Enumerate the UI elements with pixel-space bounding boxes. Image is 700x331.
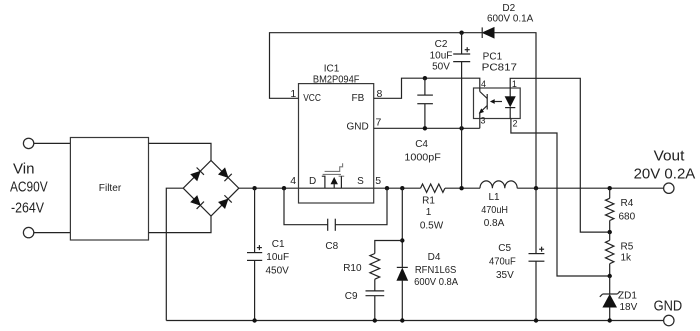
opto PC1 body — [474, 88, 521, 119]
bridge rectifier frame — [183, 161, 239, 217]
svg-text:D4: D4 — [428, 252, 441, 263]
label 20V 0.2A — [634, 167, 696, 183]
svg-text:1: 1 — [512, 79, 517, 89]
transistor (internal MOSFET) drain lead — [322, 176, 325, 188]
pin 1 label (PC1) — [512, 79, 517, 89]
svg-text:10uF: 10uF — [430, 50, 453, 61]
label GND — [654, 299, 683, 315]
svg-text:BM2P094F: BM2P094F — [313, 75, 360, 86]
wire — [401, 188, 403, 267]
wire — [34, 142, 71, 144]
svg-text:VCC: VCC — [303, 93, 321, 104]
wire (main rail: bridge to R1) — [239, 187, 421, 189]
svg-text:AC90V: AC90V — [10, 180, 48, 196]
wire — [609, 221, 611, 233]
pin S label — [357, 176, 364, 187]
capacitor C4 — [417, 78, 433, 128]
svg-text:50V: 50V — [432, 62, 450, 73]
label Filter — [99, 183, 122, 194]
svg-text:600V 0.8A: 600V 0.8A — [414, 277, 458, 288]
svg-text:35V: 35V — [496, 270, 514, 281]
opto LED — [505, 88, 515, 119]
svg-text:Filter: Filter — [99, 183, 122, 194]
diode D2 — [482, 27, 494, 38]
node (FB / C4) — [423, 76, 427, 80]
label 0.5W — [420, 220, 444, 231]
bridge diode (upper-right) — [218, 167, 232, 181]
label 680 — [619, 212, 636, 223]
resistor R10 — [370, 254, 380, 280]
pin VCC label — [303, 93, 321, 104]
label Vout — [654, 149, 685, 165]
pin 1 label — [290, 88, 296, 100]
node (rail / C8 left) — [282, 186, 286, 190]
svg-text:4: 4 — [290, 175, 296, 187]
opto phototransistor — [479, 88, 487, 119]
node (rail / R4) — [608, 186, 612, 190]
wire (D2 to rail node) — [494, 33, 536, 189]
wire — [375, 241, 403, 254]
transistor body-diode arrow — [331, 178, 337, 189]
diode D4 — [397, 267, 408, 320]
svg-text:S: S — [357, 176, 364, 187]
label D2 — [502, 3, 515, 14]
svg-text:Vout: Vout — [654, 149, 685, 165]
label ZD1 — [618, 291, 637, 302]
node — [534, 318, 538, 322]
svg-text:1: 1 — [426, 207, 432, 218]
node (rail / C5 D2 branch) — [534, 186, 538, 190]
pin GND label — [346, 122, 368, 133]
label 450V — [266, 265, 290, 276]
filter block — [70, 138, 148, 241]
svg-text:PC1: PC1 — [483, 52, 503, 63]
node (GND / C2) — [459, 126, 463, 130]
capacitor C8 — [284, 188, 387, 231]
svg-text:PC817: PC817 — [482, 63, 518, 74]
svg-text:RFN1L6S: RFN1L6S — [415, 265, 457, 276]
input terminal (AC line, bottom) — [23, 227, 33, 237]
capacitor C2 — [453, 33, 470, 189]
wire — [609, 276, 611, 294]
wire (GND pin 7 to PC1 pin 3) — [374, 119, 480, 129]
svg-text:D2: D2 — [502, 3, 515, 14]
svg-text:600V 0.1A: 600V 0.1A — [487, 14, 534, 25]
inductor L1 — [480, 181, 517, 188]
wire (PC1 pin 2 to R5-ZD1 node) — [511, 119, 610, 277]
wire — [609, 188, 611, 198]
svg-text:C9: C9 — [345, 291, 358, 302]
node (rail / C1 tap) — [252, 186, 256, 190]
node (rail / C8 right) — [385, 186, 389, 190]
node (top rail / C2) — [459, 31, 463, 35]
label Vin — [13, 162, 35, 178]
label C5 — [498, 243, 511, 254]
svg-text:R1: R1 — [422, 196, 435, 207]
wire — [149, 216, 212, 233]
label 10uF — [266, 252, 289, 263]
label 18V — [620, 302, 638, 313]
svg-text:R5: R5 — [621, 242, 634, 253]
svg-text:3: 3 — [481, 116, 486, 126]
pin 4 label — [290, 175, 296, 187]
svg-text:R4: R4 — [621, 198, 634, 209]
pin 5 label — [375, 175, 381, 187]
label R1 — [422, 196, 435, 207]
op IC1 body — [299, 84, 374, 203]
label C2 — [435, 39, 448, 50]
wire (VCC pin 1 to top rail) — [270, 33, 483, 99]
svg-text:GND: GND — [346, 122, 368, 133]
output terminal Vout — [664, 183, 674, 193]
node (R5/ZD1) — [608, 274, 612, 278]
capacitor C9 — [366, 279, 385, 320]
svg-text:C8: C8 — [325, 241, 338, 252]
pin 4 label (PC1) — [481, 79, 486, 89]
pin 7 label — [376, 117, 382, 129]
label 35V — [496, 270, 514, 281]
svg-text:470uF: 470uF — [489, 257, 516, 268]
svg-text:D: D — [309, 176, 316, 187]
label C1 — [272, 239, 285, 250]
label 470uH — [481, 205, 508, 216]
svg-text:7: 7 — [376, 117, 382, 129]
svg-text:C4: C4 — [415, 139, 428, 150]
svg-text:450V: 450V — [266, 265, 290, 276]
label L1 — [488, 192, 500, 203]
wire (PC1 pin 1 to R4-R5 node) — [510, 78, 610, 232]
wire — [609, 232, 611, 240]
svg-text:C2: C2 — [435, 39, 448, 50]
transistor gate lead — [325, 163, 343, 171]
bridge diode (lower-left) — [190, 195, 204, 209]
node — [373, 318, 377, 322]
label BM2P094F — [313, 75, 360, 86]
svg-text:470uH: 470uH — [481, 205, 508, 216]
svg-text:2: 2 — [513, 119, 518, 129]
transistor source lead — [339, 176, 345, 188]
resistor R1 — [421, 184, 445, 192]
svg-text:10uF: 10uF — [266, 252, 289, 263]
svg-text:680: 680 — [619, 212, 636, 223]
resistor R4 — [606, 198, 614, 220]
opto light arrow — [491, 100, 502, 104]
bridge diode (lower-right) — [218, 195, 232, 209]
node — [608, 318, 612, 322]
svg-text:C1: C1 — [272, 239, 285, 250]
node (rail / C2 branch) — [459, 186, 463, 190]
bridge diode (upper-left) — [190, 167, 204, 181]
svg-text:18V: 18V — [620, 302, 638, 313]
label 470uF — [489, 257, 516, 268]
wire — [34, 232, 71, 234]
capacitor C5 — [529, 188, 545, 320]
node (GND / C4) — [423, 126, 427, 130]
label 600V 0.1A — [487, 14, 534, 25]
label AC90V — [10, 180, 48, 196]
label C8 — [325, 241, 338, 252]
node — [252, 318, 256, 322]
transistor channel bar — [323, 173, 341, 175]
svg-text:0.8A: 0.8A — [484, 218, 505, 229]
label 1k — [621, 253, 633, 264]
label RFN1L6S — [415, 265, 457, 276]
label C9 — [345, 291, 358, 302]
label 600V 0.8A — [414, 277, 458, 288]
capacitor C1 — [247, 188, 262, 320]
resistor R5 — [606, 240, 614, 263]
wire — [609, 264, 611, 276]
pin 2 label (PC1) — [513, 119, 518, 129]
svg-text:L1: L1 — [488, 192, 500, 203]
svg-text:1k: 1k — [621, 253, 633, 264]
svg-text:R10: R10 — [343, 263, 362, 274]
svg-text:ZD1: ZD1 — [618, 291, 637, 302]
label D4 — [428, 252, 441, 263]
svg-text:Vin: Vin — [13, 162, 35, 178]
pin FB label — [352, 93, 365, 104]
label 0.8A — [484, 218, 505, 229]
wire (ground bus) — [166, 320, 663, 322]
svg-text:GND: GND — [654, 299, 683, 315]
label 1000pF — [404, 152, 440, 163]
wire (FB pin 8 to PC1 pin 4) — [374, 78, 480, 98]
label R10 — [343, 263, 362, 274]
pin D label — [309, 176, 316, 187]
wire — [149, 143, 212, 160]
svg-text:4: 4 — [481, 79, 486, 89]
wire — [166, 188, 183, 320]
svg-text:0.5W: 0.5W — [420, 220, 444, 231]
label R5 — [621, 242, 634, 253]
svg-text:20V 0.2A: 20V 0.2A — [634, 167, 696, 183]
label 50V — [432, 62, 450, 73]
svg-text:-264V: -264V — [11, 201, 44, 217]
label PC1 — [483, 52, 503, 63]
wire (rail L1 to Vout) — [517, 187, 663, 189]
label PC817 — [482, 63, 518, 74]
label -264V — [11, 201, 44, 217]
svg-text:1000pF: 1000pF — [404, 152, 440, 163]
svg-text:C5: C5 — [498, 243, 511, 254]
label 10uF — [430, 50, 453, 61]
node (R4/R5) — [608, 230, 612, 234]
label R4 — [621, 198, 634, 209]
pin 3 label (PC1) — [481, 116, 486, 126]
svg-text:FB: FB — [352, 93, 365, 104]
node — [400, 318, 404, 322]
label C4 — [415, 139, 428, 150]
label IC1 — [324, 64, 340, 75]
label 1 — [426, 207, 432, 218]
zener ZD1 — [600, 291, 620, 320]
input terminal (AC line, top) — [23, 138, 33, 148]
output terminal GND — [664, 315, 674, 325]
node (D4 / snubber) — [400, 238, 404, 242]
wire (rail R1 to L1) — [445, 187, 480, 189]
svg-text:5: 5 — [375, 175, 381, 187]
svg-text:IC1: IC1 — [324, 64, 340, 75]
pin 8 label — [377, 88, 383, 100]
node (rail / D4) — [400, 186, 404, 190]
